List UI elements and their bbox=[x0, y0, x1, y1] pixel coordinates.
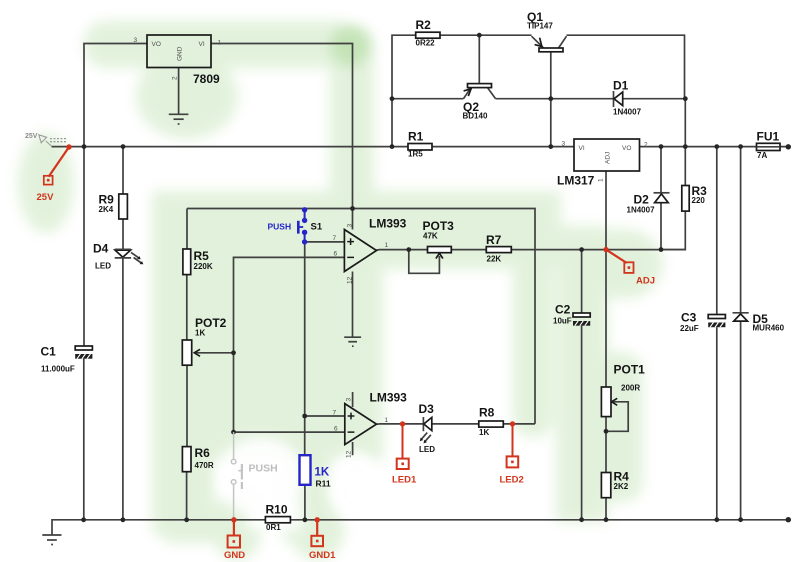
svg-text:1N4007: 1N4007 bbox=[627, 206, 656, 215]
wire comparator2 pin7 input bbox=[305, 415, 345, 417]
svg-text:R1: R1 bbox=[408, 130, 424, 144]
wire POT2 wiper bbox=[196, 352, 234, 354]
svg-text:GND: GND bbox=[177, 46, 184, 61]
wire C3 branch bbox=[716, 147, 718, 315]
wire 9V rail row bbox=[187, 209, 535, 424]
svg-text:3: 3 bbox=[347, 224, 354, 228]
svg-text:7A: 7A bbox=[757, 151, 767, 160]
wire 7809 VI to comparator rail drop bbox=[211, 44, 353, 230]
resistor R1 bbox=[408, 130, 432, 159]
ground symbol below comparator U1 bbox=[344, 337, 361, 346]
wire D2 branch bbox=[660, 147, 662, 193]
svg-text:R5: R5 bbox=[194, 249, 210, 263]
svg-text:12: 12 bbox=[346, 450, 353, 458]
svg-text:VO: VO bbox=[152, 41, 161, 48]
wire LM317 ADJ drop bbox=[605, 171, 607, 387]
svg-text:11.000uF: 11.000uF bbox=[41, 365, 75, 374]
resistor R4 bbox=[601, 470, 629, 498]
svg-text:D4: D4 bbox=[93, 242, 109, 256]
wire R5 to POT2 bbox=[186, 275, 188, 340]
svg-text:12: 12 bbox=[347, 276, 354, 284]
svg-text:R2: R2 bbox=[416, 18, 432, 32]
resistor R6 bbox=[182, 446, 213, 472]
wire comparator2 output to D3 bbox=[377, 423, 424, 425]
port LED1 bbox=[392, 421, 417, 485]
svg-text:2: 2 bbox=[644, 142, 648, 149]
wire 7809 VO to left column bbox=[84, 44, 147, 147]
fuse FU1 bbox=[757, 130, 781, 161]
svg-text:25V: 25V bbox=[25, 133, 38, 140]
svg-text:200R: 200R bbox=[621, 384, 640, 393]
svg-text:1R5: 1R5 bbox=[408, 150, 423, 159]
node junction dots bbox=[81, 33, 791, 523]
wire D1 to right corner bbox=[623, 98, 685, 100]
capacitor C2 bbox=[553, 303, 590, 326]
wire Q2 emitter line bbox=[392, 98, 464, 100]
ground symbol bottom left bbox=[42, 535, 61, 545]
svg-text:FU1: FU1 bbox=[757, 130, 780, 144]
port ADJ bbox=[603, 247, 655, 287]
capacitor C3 bbox=[680, 311, 725, 334]
svg-text:1: 1 bbox=[598, 178, 605, 182]
svg-text:POT1: POT1 bbox=[614, 363, 646, 377]
potentiometer POT1 bbox=[601, 363, 645, 417]
white halo around ghost push button bbox=[217, 437, 381, 530]
svg-text:25V: 25V bbox=[37, 192, 55, 203]
svg-text:6: 6 bbox=[334, 251, 338, 258]
svg-text:1K: 1K bbox=[479, 428, 489, 437]
potentiometer POT2 bbox=[182, 316, 226, 365]
svg-text:47K: 47K bbox=[423, 232, 438, 241]
op-amp comparator U2 LM393 (bottom) bbox=[333, 391, 408, 459]
wire R11 to bus bbox=[304, 485, 306, 520]
wire POT1 wiper bracket bbox=[606, 402, 628, 432]
wire top R2 Q1 net bbox=[392, 35, 416, 146]
wire left column C1 branch bbox=[83, 147, 85, 346]
wire LM317 VO to fuse bbox=[640, 146, 789, 148]
svg-text:LED2: LED2 bbox=[500, 475, 524, 486]
wire comparator2 pin6 input bbox=[234, 431, 345, 433]
svg-text:3: 3 bbox=[562, 141, 566, 148]
svg-text:2K4: 2K4 bbox=[99, 205, 114, 214]
svg-text:LED: LED bbox=[95, 262, 111, 271]
resistor R7 bbox=[486, 233, 511, 264]
svg-text:1: 1 bbox=[385, 242, 389, 249]
svg-text:3: 3 bbox=[346, 398, 353, 402]
svg-text:C1: C1 bbox=[41, 345, 57, 359]
svg-text:LM317: LM317 bbox=[557, 174, 595, 188]
svg-text:2: 2 bbox=[172, 76, 179, 80]
svg-text:1K: 1K bbox=[195, 329, 205, 338]
svg-text:0R22: 0R22 bbox=[416, 39, 436, 48]
svg-text:6: 6 bbox=[334, 425, 338, 432]
resistor R2 bbox=[416, 18, 441, 48]
svg-text:R6: R6 bbox=[195, 446, 211, 460]
wire 7809 ground drop bbox=[178, 68, 180, 114]
resistor R10 bbox=[265, 503, 290, 533]
svg-text:D1: D1 bbox=[613, 79, 629, 93]
svg-text:3: 3 bbox=[134, 37, 138, 44]
wire Q1 collector drop bbox=[550, 52, 552, 147]
svg-text:S1: S1 bbox=[311, 222, 323, 233]
svg-text:1N4007: 1N4007 bbox=[613, 108, 642, 117]
port GND bbox=[224, 517, 245, 561]
svg-text:220: 220 bbox=[692, 196, 706, 205]
svg-text:PUSH: PUSH bbox=[268, 222, 292, 232]
svg-text:10uF: 10uF bbox=[553, 317, 572, 326]
wire Q2 collector to D1 bbox=[496, 98, 614, 100]
svg-text:7: 7 bbox=[333, 410, 337, 417]
wire comparator2 pin3 stub bbox=[352, 392, 354, 407]
switch S1 (blue) bbox=[298, 207, 307, 244]
transistor Q1 TIP147 bbox=[527, 10, 567, 52]
diode D3 LED bbox=[419, 402, 436, 454]
svg-text:R7: R7 bbox=[486, 233, 502, 247]
svg-text:2K2: 2K2 bbox=[614, 482, 629, 491]
wire POT1 to bracket node to R4 bbox=[605, 417, 607, 473]
svg-text:ADJ: ADJ bbox=[636, 276, 655, 287]
wire POT2 to R6 bbox=[186, 365, 188, 446]
svg-text:0R1: 0R1 bbox=[266, 523, 281, 532]
svg-text:D2: D2 bbox=[634, 193, 650, 207]
svg-text:7809: 7809 bbox=[193, 72, 220, 86]
wire comparator1 pin12 to ground bbox=[352, 272, 354, 337]
svg-text:LM393: LM393 bbox=[369, 217, 407, 231]
wire comparator1 pin7 input bbox=[305, 241, 345, 243]
svg-text:TIP147: TIP147 bbox=[527, 22, 553, 31]
potentiometer POT3 bbox=[423, 219, 455, 259]
diode D2 bbox=[627, 193, 670, 215]
svg-text:VO: VO bbox=[622, 145, 631, 152]
ground symbol below 7809 bbox=[169, 114, 189, 124]
capacitor C1 bbox=[41, 345, 93, 374]
highlight overlap dark spot at top corner bbox=[330, 26, 370, 66]
wire comparator1 output row to ADJ node bbox=[377, 249, 428, 251]
highlight green marker net regions bbox=[18, 21, 663, 561]
wire ground bus bottom bbox=[52, 520, 265, 535]
svg-text:470R: 470R bbox=[195, 461, 214, 470]
svg-text:7: 7 bbox=[333, 235, 337, 242]
svg-text:BD140: BD140 bbox=[463, 112, 488, 121]
diode D1 bbox=[613, 79, 642, 117]
wire R4 to bus bbox=[605, 498, 607, 520]
wire R8 to right riser bbox=[503, 423, 535, 425]
resistor R3 bbox=[682, 184, 707, 211]
resistor R8 bbox=[479, 406, 504, 438]
svg-text:C2: C2 bbox=[555, 303, 571, 317]
wire R6 to bus bbox=[186, 472, 188, 520]
ghost push button (disabled) bbox=[231, 432, 242, 520]
port LED2 bbox=[500, 421, 524, 485]
wire S1 lower drop to R11 bbox=[304, 242, 306, 455]
svg-text:VI: VI bbox=[579, 145, 585, 152]
wire R9 D4 branch bbox=[122, 147, 124, 194]
port GND1 bbox=[309, 517, 336, 561]
svg-text:22K: 22K bbox=[487, 255, 502, 264]
diode D5 bbox=[733, 312, 785, 333]
regulator 7809 bbox=[134, 35, 222, 86]
port 25V bbox=[37, 144, 72, 203]
ghost supply symbol 25V bbox=[39, 135, 67, 147]
svg-text:1: 1 bbox=[385, 417, 389, 424]
resistor R11 (blue) bbox=[300, 455, 331, 488]
wire R3 branch bbox=[684, 99, 686, 186]
svg-text:220K: 220K bbox=[194, 262, 213, 271]
regulator LM317 bbox=[557, 139, 648, 188]
resistor R9 bbox=[99, 193, 128, 220]
svg-text:R11: R11 bbox=[316, 479, 331, 489]
svg-text:D3: D3 bbox=[419, 402, 435, 416]
wire comparator1 pin6 input bbox=[234, 257, 345, 432]
svg-text:ADJ: ADJ bbox=[605, 152, 612, 164]
wire D3 to R8 bbox=[432, 423, 479, 425]
wire comparator2 pin12 stub bbox=[352, 442, 354, 455]
svg-text:VI: VI bbox=[199, 41, 205, 48]
wire 25V bus left segment bbox=[52, 146, 409, 148]
transistor Q2 BD140 bbox=[463, 84, 496, 121]
diode D4 LED bbox=[93, 242, 143, 271]
svg-text:PUSH: PUSH bbox=[249, 463, 278, 475]
svg-text:R10: R10 bbox=[266, 503, 288, 517]
svg-text:LED1: LED1 bbox=[392, 475, 417, 486]
wire D5 branch bbox=[740, 147, 742, 313]
svg-text:LED: LED bbox=[419, 445, 435, 454]
resistor R5 bbox=[183, 249, 213, 275]
svg-text:1: 1 bbox=[218, 40, 222, 47]
wire Q2 base drop bbox=[478, 35, 480, 83]
wire 25V bus mid segment R1 to LM317 bbox=[432, 146, 574, 148]
svg-text:R8: R8 bbox=[479, 406, 495, 420]
svg-text:GND1: GND1 bbox=[309, 550, 336, 561]
op-amp comparator U1 LM393 (top) bbox=[333, 217, 407, 285]
wire POT3 bracket bbox=[409, 250, 440, 274]
svg-text:LM393: LM393 bbox=[370, 391, 408, 405]
svg-text:GND: GND bbox=[224, 550, 245, 561]
svg-text:C3: C3 bbox=[681, 311, 697, 325]
wire C2 branch bbox=[581, 250, 583, 313]
svg-text:1K: 1K bbox=[315, 467, 330, 479]
svg-text:MUR460: MUR460 bbox=[753, 324, 785, 333]
svg-text:22uF: 22uF bbox=[680, 324, 699, 333]
